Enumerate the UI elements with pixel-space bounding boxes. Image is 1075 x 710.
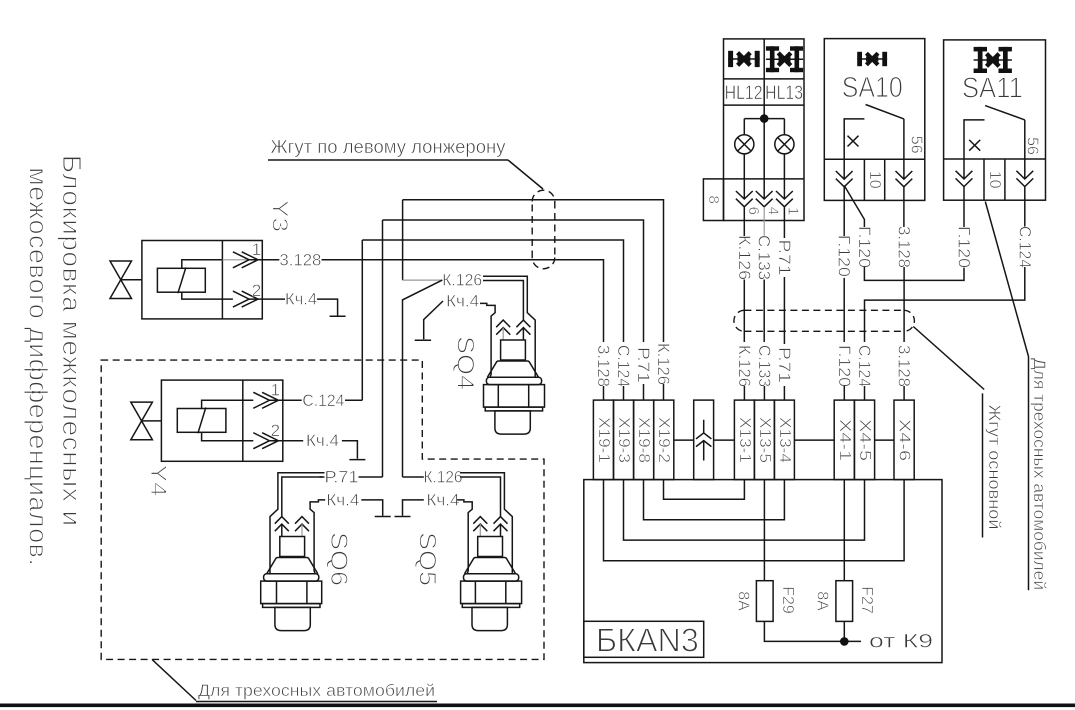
svg-text:Для трехосных автомобилей: Для трехосных автомобилей — [198, 681, 435, 700]
connector pin X19-2 — [654, 400, 674, 480]
svg-text:10: 10 — [866, 171, 883, 189]
underline of bottom caption — [196, 701, 437, 703]
svg-text:Г.120: Г.120 — [835, 345, 854, 387]
svg-text:Г.120: Г.120 — [955, 226, 974, 268]
svg-text:F27: F27 — [858, 586, 875, 614]
Y4 coil — [177, 409, 226, 433]
svg-text:3.128: 3.128 — [895, 226, 914, 268]
SA10 x mark — [848, 136, 859, 147]
HL13 icon: inter-axle diff lock — [766, 46, 803, 72]
svg-text:SQ5: SQ5 — [414, 532, 441, 586]
wire 3.128 through harness to lower label — [903, 267, 905, 342]
wire Y4 pin1 to С.124 label — [270, 399, 302, 401]
svg-text:Р.71: Р.71 — [775, 347, 794, 383]
sheet frame bottom edge — [0, 704, 1075, 708]
svg-text:X13-4: X13-4 — [776, 417, 793, 463]
connector pin X4-1 — [834, 400, 854, 480]
svg-text:Г.120: Г.120 — [855, 226, 874, 268]
Y4 pin1 chevron — [253, 392, 278, 408]
svg-text:С.124: С.124 — [302, 391, 344, 410]
svg-text:Кч.4: Кч.4 — [306, 431, 339, 450]
lamp HL12 — [735, 119, 754, 179]
Y3 coil — [157, 268, 205, 292]
pressure switch SQ4 — [480, 276, 545, 434]
svg-text:Жгут по левому лонжерону: Жгут по левому лонжерону — [271, 137, 506, 157]
svg-text:SQ6: SQ6 — [325, 532, 352, 586]
svg-text:SQ4: SQ4 — [452, 336, 479, 390]
HL12 icon: inter-wheel diff lock — [728, 51, 760, 67]
Y3 pin1 chevron — [233, 252, 258, 268]
svg-text:2: 2 — [271, 421, 280, 440]
Y4 coil to pin2 wire — [202, 432, 254, 440]
SA10 switch arm — [866, 105, 904, 119]
wire С.133 through harness — [763, 280, 765, 343]
valve symbol of Y4 — [131, 402, 153, 440]
stub К.126 to X13-1 — [743, 386, 745, 400]
underline of main harness caption — [982, 393, 984, 537]
svg-text:Г.120: Г.120 — [835, 235, 854, 277]
link mating cell to X13-1 — [714, 439, 735, 441]
wire Р.71 through harness — [783, 277, 785, 344]
svg-text:Блокировка межколесных и: Блокировка межколесных и — [57, 155, 87, 527]
stub С.133 to X13-5 — [763, 386, 765, 400]
svg-text:Кч.4: Кч.4 — [446, 292, 479, 311]
wire F29 to junction — [764, 621, 844, 641]
underline of longeron label — [268, 159, 508, 161]
svg-text:56: 56 — [1024, 137, 1041, 155]
svg-text:1: 1 — [785, 207, 802, 215]
HL pin 6 chevron — [736, 179, 753, 221]
Y4 electro-valve box — [161, 380, 282, 461]
svg-text:межосевого дифференциалов.: межосевого дифференциалов. — [24, 167, 54, 566]
connector pin X13-5 — [754, 400, 774, 480]
svg-text:X4-1: X4-1 — [836, 419, 853, 461]
wire К.126 run corner to SQ5 label — [403, 476, 424, 478]
dashed box: three-axle vehicles option region — [101, 360, 544, 659]
link X13-4 to X4-1 — [794, 439, 834, 441]
stub Г.120 to X4-1 — [843, 386, 845, 400]
leader from dashed box to bottom caption — [152, 659, 196, 700]
svg-text:С.133: С.133 — [755, 235, 774, 280]
svg-text:56: 56 — [907, 136, 924, 154]
stub P.71 to X19-8 — [643, 384, 645, 400]
svg-text:F29: F29 — [779, 586, 796, 614]
connector pin X13-1 — [734, 400, 754, 480]
SA11 connector strip — [944, 159, 1046, 200]
mating chevron symbol — [696, 420, 711, 461]
svg-text:6: 6 — [745, 207, 762, 215]
wire F27 to junction — [843, 621, 845, 641]
connector pin X4-6 — [894, 400, 914, 480]
wire Г.120 SA10 left pin down — [843, 200, 845, 236]
svg-text:3.128: 3.128 — [594, 345, 613, 387]
wire Y4 pin2 to Кч.4 label — [270, 440, 304, 442]
wire К.126 diagonal jog down to SQ5 run — [403, 280, 443, 477]
svg-text:Жгут основной: Жгут основной — [985, 405, 1004, 530]
svg-text:SA10: SA10 — [842, 72, 903, 104]
valve symbol of Y3 — [110, 261, 132, 299]
Y4 pin2 chevron — [253, 433, 278, 449]
svg-text:К.126: К.126 — [654, 343, 673, 385]
Y4 coil diagonal — [198, 408, 206, 434]
SA11 left pin chevron — [956, 159, 973, 200]
Y3 box divider — [221, 241, 223, 319]
stub 3.128 to X4-6 — [903, 386, 905, 400]
svg-text:8А: 8А — [735, 591, 752, 611]
wire С.133 HL pin 4 (gray shaft) — [763, 207, 765, 236]
internal route X19-1 to X4-6 — [604, 480, 905, 561]
stub 3.128 to X19-1 — [603, 386, 605, 400]
wire Y3 pin2 to Кч.4 label — [249, 298, 285, 300]
HL block internal horizontals — [724, 79, 805, 179]
Y3 pin1 shaft (gray) — [222, 259, 249, 261]
svg-text:Y4: Y4 — [146, 465, 171, 497]
switch SA11 box — [944, 40, 1046, 200]
svg-text:Р.71: Р.71 — [634, 347, 653, 383]
link X4-5 to X4-6 — [875, 439, 894, 441]
underline of right three-axle caption — [1028, 357, 1030, 591]
svg-text:HL13: HL13 — [765, 83, 803, 104]
wire Кч.4 of SQ5 to ground — [403, 500, 424, 516]
wire net P.71 top run (riser to X19-8) — [383, 220, 644, 477]
wire X13-5 to fuse F29 — [763, 480, 765, 581]
wire net C.124 top run (Y4 pin1 riser to X19-3) — [362, 240, 623, 400]
svg-text:X19-3: X19-3 — [615, 417, 632, 463]
wire С.124 SA11 right pin down — [1024, 200, 1026, 227]
connector pin X19-3 — [614, 400, 634, 480]
svg-text:X19-8: X19-8 — [635, 417, 652, 463]
fuse F29 — [756, 581, 773, 622]
left longeron harness capsule (dashed stadium, vertical) — [532, 190, 555, 269]
stub Р.71 to X13-4 — [783, 386, 785, 400]
connector pin X19-1 — [593, 400, 613, 480]
connector pin X19-8 — [634, 400, 654, 480]
svg-text:К.126: К.126 — [442, 271, 482, 290]
svg-text:Кч.4: Кч.4 — [326, 490, 359, 509]
wire Г.120 branch diagonal from SA10 pin — [844, 186, 864, 228]
svg-text:Р.71: Р.71 — [775, 240, 794, 276]
svg-text:1: 1 — [252, 240, 261, 259]
Y3 coil diagonal — [178, 267, 186, 293]
svg-text:К.126: К.126 — [424, 468, 463, 487]
leader to main harness caption — [913, 327, 984, 390]
wire К.126 riser corner to SQ4 label (gray) — [403, 279, 443, 281]
svg-text:10: 10 — [986, 171, 1003, 189]
stub К.126 to X19-2 — [663, 384, 665, 400]
HL lamps common wire — [744, 105, 784, 179]
svg-text:Кч.4: Кч.4 — [285, 290, 317, 309]
svg-text:1: 1 — [271, 381, 280, 400]
SA10 right pin chevron — [896, 159, 913, 200]
HL pin 1 chevron — [776, 179, 793, 221]
wire net К.126 top run (riser to X19-2) — [403, 200, 664, 342]
junction dot — [840, 637, 849, 646]
HL12/HL13 indicator block outer box — [724, 39, 805, 221]
wire К.126 through harness to lower label — [743, 280, 745, 343]
svg-text:X4-5: X4-5 — [856, 419, 873, 461]
wire Р.71 HL to capsule — [783, 221, 785, 239]
svg-text:Р.71: Р.71 — [325, 468, 359, 487]
stub С.124 to X4-5 — [864, 386, 866, 400]
wire Г.120 through harness to lower label — [843, 278, 845, 342]
svg-text:С.124: С.124 — [1015, 226, 1034, 268]
lamp HL13 — [775, 119, 794, 179]
Y3 pin2 chevron — [233, 291, 258, 307]
БКАН3 unit box — [584, 480, 942, 663]
wire Кч.4 of SQ6 to ground — [361, 500, 382, 516]
wire С.124 label to riser — [345, 399, 362, 401]
link X19-2 cell to mating cell — [674, 439, 694, 441]
svg-text:HL12: HL12 — [725, 83, 763, 104]
svg-text:С.124: С.124 — [614, 345, 633, 387]
switch SA10 box — [824, 39, 925, 201]
leader line to left-longeron harness capsule — [508, 160, 543, 189]
ground symbol at SQ5 — [395, 516, 411, 518]
Y3 electro-valve box — [142, 241, 262, 319]
SA10 left pin chevron — [836, 159, 853, 200]
SA10 switch frame — [844, 119, 904, 159]
svg-text:SA11: SA11 — [962, 73, 1023, 105]
Y3 coil to pin1 wire — [182, 260, 223, 269]
svg-text:2: 2 — [252, 281, 261, 300]
stub C.124 to X19-3 — [623, 386, 625, 400]
svg-text:8: 8 — [705, 196, 722, 204]
БКАН3 label box — [584, 621, 704, 657]
wire net 3.128 from Y3 to X19-1 bend — [322, 260, 604, 342]
SA11 switch frame — [964, 120, 1025, 159]
svg-text:Y3: Y3 — [268, 200, 293, 232]
svg-text:X13-5: X13-5 — [756, 417, 773, 463]
wire SQ6 double-line bridge to Р.71 label — [320, 473, 325, 477]
wire X4-1 to fuse F27 — [843, 480, 845, 581]
ground symbol at SQ4 — [415, 339, 431, 341]
wire junction to от К9 — [844, 640, 861, 642]
wire SA11 left pin to its label — [963, 200, 965, 227]
HL junction dot — [760, 114, 769, 123]
connector mating cell — [694, 400, 714, 480]
svg-text:X19-2: X19-2 — [655, 417, 672, 463]
internal route X19-2 to X13-1 — [664, 480, 745, 500]
main harness capsule (dashed stadium, horizontal) — [734, 310, 915, 331]
HL pin 4 chevron — [756, 179, 773, 207]
SA11 switch arm — [985, 106, 1025, 120]
connector pin X13-4 — [774, 400, 794, 480]
svg-text:X4-6: X4-6 — [896, 419, 913, 461]
SA11 right pin chevron — [1016, 159, 1033, 200]
svg-text:Для трехосных автомобилей: Для трехосных автомобилей — [1030, 358, 1049, 590]
svg-text:К.126: К.126 — [735, 235, 754, 280]
Y4 coil to pin1 wire — [202, 400, 254, 408]
HL connector 8 box — [703, 179, 723, 221]
svg-text:К.126: К.126 — [735, 345, 754, 387]
svg-text:БКАN3: БКАN3 — [596, 622, 699, 659]
wire Y3 pin1 to 3.128 label — [249, 259, 279, 261]
svg-text:X19-1: X19-1 — [595, 417, 612, 463]
Y4 box divider — [242, 380, 244, 461]
ground symbol at Y4 — [349, 459, 365, 461]
SA11 icon: inter-axle diff lock — [974, 47, 1012, 73]
svg-text:Кч.4: Кч.4 — [427, 490, 460, 509]
svg-text:от К9: от К9 — [869, 632, 933, 653]
internal route X19-3 to X4-5 — [624, 480, 865, 540]
wire 3.128 SA10 right pin down — [903, 200, 905, 227]
SA10 connector strip — [824, 159, 925, 200]
fuse F27 — [836, 581, 853, 622]
SA11 x mark — [969, 140, 980, 151]
svg-text:4: 4 — [765, 207, 782, 215]
leader Кч.4 of SQ4 to ground — [424, 301, 443, 339]
svg-text:3.128: 3.128 — [279, 250, 321, 269]
svg-text:3.128: 3.128 — [895, 345, 914, 387]
SA10 icon: inter-wheel diff lock — [857, 52, 887, 66]
wire Кч.4 to ground at Y4 — [342, 441, 358, 459]
ground symbol at Y3 — [330, 315, 346, 317]
wire С.124 route to X4-5 run — [865, 267, 1025, 342]
connector pin X4-5 — [854, 400, 874, 480]
pressure switch SQ5 — [457, 473, 521, 631]
wire Р.71 label to riser corner — [359, 476, 383, 478]
ground symbol at SQ6 — [375, 516, 391, 518]
svg-text:8А: 8А — [814, 591, 831, 611]
leader to three-axle caption (right) — [985, 202, 1028, 357]
svg-text:С.133: С.133 — [755, 345, 774, 387]
wire valve Y4 to coil box — [142, 420, 162, 422]
wire Г.120 bracket to SA11 left pin — [864, 267, 964, 280]
HL icon cells divider — [763, 39, 765, 105]
svg-text:X13-1: X13-1 — [736, 417, 753, 463]
internal route X19-8 to X13-4 — [644, 480, 785, 520]
svg-text:С.124: С.124 — [855, 345, 874, 387]
wire valve Y3 to coil box — [121, 279, 142, 281]
pressure switch SQ6 (mirrored) — [261, 473, 326, 631]
wire Кч.4 to ground at Y3 — [317, 299, 338, 315]
wire К.126 HL to capsule — [743, 221, 745, 237]
Y3 coil to pin2 wire — [182, 292, 233, 299]
